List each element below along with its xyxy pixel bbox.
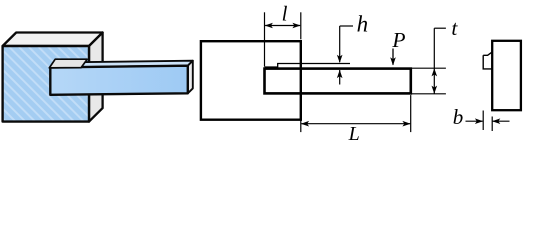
svg-text:b: b (453, 105, 464, 129)
svg-text:L: L (348, 123, 360, 145)
svg-text:P: P (391, 28, 405, 52)
svg-text:l: l (282, 2, 288, 26)
svg-text:t: t (451, 16, 458, 40)
svg-text:h: h (357, 11, 369, 36)
